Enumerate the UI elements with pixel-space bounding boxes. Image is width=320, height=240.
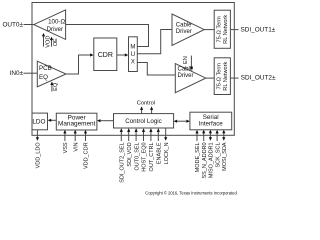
svg-text:EN: EN — [183, 56, 189, 64]
svg-text:LDO: LDO — [32, 118, 45, 125]
svg-text:MOSI_SDA: MOSI_SDA — [222, 142, 228, 171]
pin SS_N_ADDR0 — [203, 131, 205, 141]
wire CL to SI double arrow — [175, 120, 189, 122]
svg-text:Driver: Driver — [176, 29, 192, 35]
svg-text:CDR: CDR — [98, 52, 113, 59]
svg-text:IN0±: IN0± — [10, 70, 24, 77]
svg-text:VOD: VOD — [45, 36, 51, 48]
pin VDD_CDR — [85, 132, 87, 141]
svg-text:OUT0_SEL: OUT0_SEL — [134, 142, 140, 170]
pin HOST_EQ0 — [143, 129, 145, 141]
svg-text:Cable: Cable — [176, 22, 192, 28]
chip outer border — [32, 3, 234, 136]
svg-text:MODE_SEL: MODE_SEL — [195, 142, 201, 172]
op-amp PCB EQ — [37, 61, 66, 87]
wire OE arrow — [51, 39, 53, 46]
mux MUX — [129, 37, 138, 72]
op-amp top Cable Driver — [172, 14, 204, 46]
wire MUX out to top cable driver — [137, 30, 172, 54]
svg-text:VSS: VSS — [63, 142, 69, 153]
wire PM to LDO arrow — [49, 119, 56, 121]
svg-text:75-Ω Term: 75-Ω Term — [217, 16, 223, 43]
svg-text:VIN: VIN — [73, 142, 79, 151]
pin MOSI_SDA — [223, 131, 225, 138]
svg-text:LOCK_N: LOCK_N — [164, 142, 170, 164]
wire control arrow 2 — [151, 109, 153, 114]
CDR U1 — [94, 38, 117, 71]
wire top driver to RL — [204, 29, 214, 31]
wire IN0 to EQ — [24, 72, 38, 74]
svg-text:SDI_OUT2±: SDI_OUT2± — [241, 75, 276, 82]
wire MUX out to bottom cable driver — [137, 63, 175, 76]
wire EN arrow bottom driver — [190, 56, 192, 67]
svg-text:VDD_CDR: VDD_CDR — [84, 142, 90, 169]
svg-text:RL Network: RL Network — [223, 15, 229, 44]
wire CL to PM arrow — [98, 120, 113, 122]
pin MODE_SEL — [196, 131, 198, 141]
svg-text:PCB: PCB — [39, 65, 52, 72]
svg-text:SDI_OUT1±: SDI_OUT1± — [241, 26, 276, 33]
wire EQ to CDR — [66, 55, 92, 74]
svg-text:HOST_EQ0: HOST_EQ0 — [142, 142, 148, 171]
svg-text:Copyright © 2016, Texas Instru: Copyright © 2016, Texas Instruments Inco… — [145, 191, 237, 196]
pin OUT0_SEL — [135, 129, 137, 141]
svg-text:Driver: Driver — [47, 26, 64, 33]
svg-text:Cable: Cable — [178, 66, 194, 72]
pin SDI_VOD — [128, 129, 130, 141]
wire control arrow 1 — [141, 109, 143, 114]
pin LOCK_N — [165, 128, 167, 138]
pin VIN — [74, 132, 76, 141]
svg-text:OUT0±: OUT0± — [2, 22, 23, 29]
resistor network bottom 75-Ohm Term RL Network — [214, 58, 230, 95]
svg-text:M: M — [130, 45, 135, 51]
resistor network top 75-Ohm Term RL Network — [214, 10, 230, 48]
pin SDI_OUT2_SEL — [120, 129, 122, 141]
control logic block — [114, 114, 174, 128]
svg-text:SDI_OUT2_SEL: SDI_OUT2_SEL — [120, 142, 126, 182]
wire VOD arrow — [43, 36, 45, 47]
pin VSS — [64, 132, 66, 141]
regulator LDO — [32, 113, 48, 130]
wire to SDI_OUT1 — [230, 29, 238, 31]
svg-text:75-Ω Term: 75-Ω Term — [217, 63, 223, 90]
svg-text:100-Ω: 100-Ω — [48, 19, 65, 26]
svg-text:X: X — [131, 60, 135, 66]
svg-text:ENABLE: ENABLE — [157, 142, 163, 164]
serial interface block — [190, 112, 232, 130]
op-amp 100-Ohm Driver — [34, 10, 66, 40]
wire to SDI_OUT2 — [230, 77, 238, 79]
svg-text:SDI_VOD: SDI_VOD — [127, 142, 133, 166]
svg-text:SCK_SCL: SCK_SCL — [215, 142, 221, 167]
svg-text:OUT_CTRL: OUT_CTRL — [149, 142, 155, 171]
op-amp bottom Cable Driver — [175, 64, 206, 93]
svg-text:OE: OE — [53, 38, 59, 46]
svg-text:Control Logic: Control Logic — [125, 118, 161, 125]
svg-text:EQ: EQ — [39, 74, 48, 81]
wire EQ boost arrow — [51, 84, 53, 91]
svg-text:RL Network: RL Network — [223, 61, 229, 90]
pin MISO_ADDR1 — [209, 131, 211, 138]
wire bottom driver to RL — [206, 77, 214, 79]
svg-text:SS_N_ADDR0: SS_N_ADDR0 — [202, 142, 208, 178]
power management block — [56, 113, 97, 130]
svg-text:Management: Management — [58, 121, 96, 128]
pin OUT_CTRL — [150, 129, 152, 141]
svg-text:MISO_ADDR1: MISO_ADDR1 — [209, 142, 215, 178]
pin SCK_SCL — [216, 131, 218, 141]
svg-text:Interface: Interface — [199, 120, 224, 127]
pin VDD_LDO — [36, 130, 38, 139]
svg-text:Control: Control — [137, 100, 155, 106]
wire OUT0 to driver apex — [24, 24, 35, 26]
wire CDR to MUX — [117, 54, 127, 56]
pin ENABLE — [157, 129, 159, 141]
svg-text:Driver: Driver — [178, 73, 194, 79]
svg-text:EQ: EQ — [53, 82, 59, 91]
svg-text:U: U — [131, 52, 135, 58]
svg-text:VDD_LDO: VDD_LDO — [36, 142, 42, 169]
wire MUX out to 100-Ohm driver — [66, 25, 149, 47]
